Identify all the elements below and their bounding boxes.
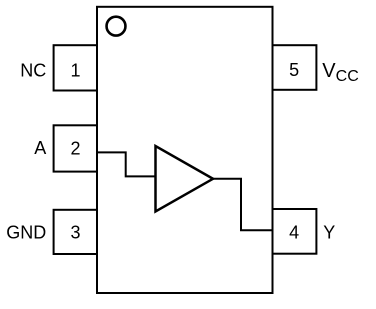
pin 1 indicator circle (107, 17, 126, 36)
svg-text:1: 1 (70, 60, 80, 80)
svg-text:A: A (34, 138, 46, 158)
IC body U1 (package outline) (97, 7, 273, 293)
wire from pin 2 (A) to buffer input (97, 152, 155, 176)
svg-text:Y: Y (323, 223, 335, 243)
svg-text:GND: GND (6, 223, 46, 243)
svg-text:3: 3 (70, 223, 80, 243)
svg-text:5: 5 (289, 60, 299, 80)
pin 3 box (54, 210, 97, 254)
pin 5 box (273, 45, 317, 90)
wire from buffer output to pin 4 (Y) (213, 179, 273, 230)
pin 4 box (273, 209, 317, 254)
pin 1 box (54, 45, 97, 90)
svg-text:NC: NC (20, 60, 46, 80)
svg-text:2: 2 (70, 139, 80, 159)
pin 2 box (54, 125, 97, 171)
buffer gate U1 (triangle) (156, 146, 214, 212)
svg-text:4: 4 (289, 223, 299, 243)
